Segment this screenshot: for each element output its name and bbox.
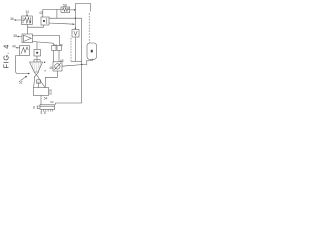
label 46 tick bbox=[49, 66, 53, 70]
label 52b bbox=[50, 100, 54, 104]
svg-text:40: 40 bbox=[12, 45, 16, 49]
branch down to sensor box 40 bbox=[36, 42, 38, 50]
svg-text:58: 58 bbox=[63, 3, 67, 7]
wire A comparator to relay K2 bbox=[33, 36, 60, 46]
labels 90 92 bbox=[49, 88, 53, 95]
lamp box 48 bbox=[53, 62, 62, 71]
svg-text:36: 36 bbox=[10, 17, 14, 21]
wire motor top up and over to resistor bbox=[43, 10, 61, 18]
svg-text:46: 46 bbox=[49, 66, 53, 70]
arrow into comparator left, label 38 bbox=[18, 36, 23, 37]
junction dot bbox=[45, 70, 46, 71]
lower stub wire with arrowhead bbox=[49, 23, 74, 25]
wire B comparator to relay K1 bbox=[33, 42, 54, 46]
svg-text:52: 52 bbox=[50, 100, 54, 104]
figure title FIG. 4 bbox=[1, 44, 10, 68]
svg-text:46: 46 bbox=[60, 43, 64, 47]
lamp right wire to rail bbox=[62, 65, 82, 67]
arrow into thermistor left, label 40 bbox=[16, 47, 19, 48]
relay K1 box 44 bbox=[52, 46, 56, 51]
wire branch y27 bbox=[28, 25, 44, 27]
label 34 bbox=[25, 10, 29, 14]
right feed vertical to valve V box bbox=[75, 4, 76, 30]
mill motor mark bbox=[37, 80, 41, 88]
labels 44 46 bbox=[54, 43, 64, 47]
svg-text:38: 38 bbox=[13, 34, 17, 38]
right rail bbox=[81, 19, 83, 104]
heater plate 58 bbox=[37, 105, 54, 112]
mill cone bbox=[34, 77, 45, 87]
lead into heater top bbox=[26, 13, 27, 16]
solenoid valve box V bbox=[72, 30, 79, 38]
label theta bbox=[33, 105, 35, 109]
junction bbox=[75, 18, 76, 19]
top right corner wire bbox=[75, 4, 90, 12]
dashed drop to indicator bbox=[88, 13, 90, 43]
label 58b bbox=[41, 111, 48, 115]
heater element box 34 bbox=[22, 16, 33, 25]
wire heater bottom to comparator top with branch to motor bottom bbox=[27, 25, 29, 35]
svg-text:92: 92 bbox=[49, 92, 53, 96]
resistor right lead with arrowhead bbox=[70, 9, 76, 10]
label 58 bbox=[63, 3, 67, 7]
thermistor box 40 bbox=[20, 46, 30, 56]
junction dot bbox=[44, 62, 46, 64]
tap from resistor feed down to bus bbox=[56, 10, 58, 19]
svg-text:FIG. 4: FIG. 4 bbox=[1, 44, 10, 68]
label 54 bbox=[44, 97, 48, 101]
indicator capsule 60 bbox=[87, 43, 97, 59]
bus wire motor to right rail bbox=[49, 17, 82, 19]
hopper collar bbox=[34, 59, 40, 62]
valve cross bbox=[34, 72, 39, 77]
svg-text:54: 54 bbox=[44, 97, 48, 101]
resistor box 58 bbox=[61, 7, 70, 13]
svg-text:52: 52 bbox=[19, 81, 23, 85]
dashed link rail bbox=[70, 38, 72, 61]
svg-text:58: 58 bbox=[41, 111, 48, 115]
jog wire to indicator bottom bbox=[82, 59, 93, 65]
relay K2 box 46 bbox=[57, 46, 61, 51]
svg-text:44: 44 bbox=[54, 43, 58, 47]
mill housing box 56 bbox=[34, 88, 49, 96]
hopper funnel bbox=[30, 62, 43, 72]
bus under indicator bbox=[71, 60, 82, 62]
bottom return wire bbox=[56, 103, 82, 105]
sensor bottom lead into hopper bbox=[36, 56, 38, 62]
relay leads down bbox=[53, 51, 55, 62]
supply drop wire from thermistor to nozzle bbox=[16, 56, 30, 75]
label 48 bbox=[60, 59, 64, 63]
lamp bottom wire to mill housing bbox=[45, 71, 57, 88]
arrow 52 into valve bbox=[21, 76, 27, 81]
svg-text:θ: θ bbox=[33, 105, 35, 109]
mill bottom lead bbox=[40, 96, 42, 106]
valve bottom lead bbox=[74, 37, 76, 61]
lead arrow into heater left, label 36 bbox=[15, 19, 22, 20]
sensor box 44 bbox=[34, 50, 41, 57]
motor box 42 bbox=[41, 17, 49, 25]
comparator box 38 bbox=[22, 34, 33, 43]
svg-text:42: 42 bbox=[39, 11, 43, 15]
svg-text:48: 48 bbox=[60, 59, 64, 63]
label 42 bbox=[39, 11, 43, 15]
svg-text:34: 34 bbox=[25, 10, 29, 14]
